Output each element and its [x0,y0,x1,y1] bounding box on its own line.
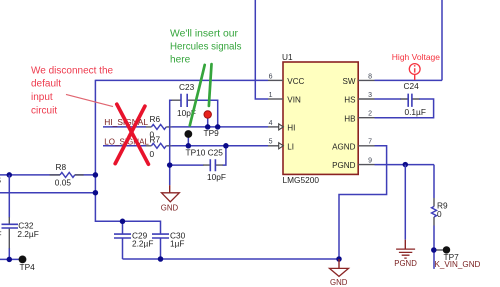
svg-text:0: 0 [150,149,155,159]
pin 2 HB [344,111,374,124]
capacitor C23 [177,82,196,118]
svg-text:U1: U1 [282,52,293,62]
svg-text:2: 2 [368,111,372,118]
svg-text:PGND: PGND [394,259,417,268]
svg-text:K_VIN_GND: K_VIN_GND [435,260,481,269]
ground GND (bottom) [330,259,349,287]
resistor R6 [146,114,172,139]
node junction C29 top [120,219,126,225]
svg-text:HB: HB [344,114,355,123]
wire R8 row [0,174,95,176]
pin 8 SW [342,73,374,86]
node junction C25 / GND branch [167,162,173,168]
svg-text:2.2µF: 2.2µF [17,229,38,239]
node junction row2/bus [93,190,99,196]
svg-text:6: 6 [269,73,273,80]
wire VIN top rail [255,0,268,99]
svg-text:SW: SW [342,77,355,86]
test point TP10 [184,130,192,146]
svg-text:10pF: 10pF [207,172,226,182]
svg-text:7: 7 [368,139,372,146]
pin 1 VIN [268,92,301,105]
node junction C30 bottom [158,256,164,262]
resistor R7 [146,135,172,160]
svg-text:3: 3 [368,92,372,99]
svg-text:1µF: 1µF [170,238,184,248]
node junction TP9 / HI [205,124,211,129]
svg-text:input: input [31,92,53,103]
test point TP4 [19,256,36,273]
svg-text:C23: C23 [179,82,195,92]
annotation green stroke 1 [190,65,205,126]
capacitor C32 [2,221,39,239]
svg-text:0.1µF: 0.1µF [405,107,426,117]
annotation red text [31,65,114,116]
node junction TP10 / LO [186,143,192,149]
svg-text:Hercules signals: Hercules signals [170,41,242,52]
node junction R8/bus [93,172,99,178]
svg-text:4: 4 [269,120,273,127]
annotation green stroke 2 [209,64,212,106]
svg-text:We disconnect the: We disconnect the [31,65,114,76]
svg-text:GND: GND [161,203,179,212]
capacitor C30 [152,231,186,259]
wire second left row [0,192,95,194]
svg-text:TP4: TP4 [20,262,36,272]
ground GND (input loop) [161,185,180,212]
svg-text:R6: R6 [150,114,161,124]
wire PGND run [375,165,435,198]
pin 7 AGND [332,139,374,152]
resistor R9 [432,198,448,226]
IC U1 LMG5200 [282,52,358,185]
svg-text:TP10 C25: TP10 C25 [186,147,224,157]
svg-text:GND: GND [330,278,348,287]
wire LO row [103,145,268,147]
svg-text:5: 5 [269,139,273,146]
pin 3 HS [344,92,374,105]
annotation green text [170,28,242,65]
svg-text:0.05: 0.05 [55,177,72,187]
wire R9 bottom / K_VIN_GND stub [433,226,435,269]
resistor R8 [50,162,84,187]
wire HS run [375,99,434,118]
svg-text:9: 9 [368,158,372,165]
svg-text:R8: R8 [56,162,67,172]
pin 9 PGND [332,158,374,171]
wire AGND run [339,146,387,259]
pin 6 VCC [268,73,305,86]
svg-text:0: 0 [437,209,442,219]
capacitor C25 [207,159,226,182]
svg-text:TP9: TP9 [204,128,220,138]
annotation red X stroke 1 [117,104,149,164]
wire bottom ground rail [123,258,340,260]
svg-text:circuit: circuit [31,105,57,116]
wire PGND vertical [404,165,406,240]
svg-text:LI: LI [287,142,294,151]
svg-text:VIN: VIN [287,96,301,105]
capacitor C29 [114,221,153,259]
power marker High Voltage [392,52,440,80]
svg-text:C24: C24 [404,81,420,91]
wire TP4 row [0,258,23,260]
svg-text:1: 1 [269,92,273,99]
svg-text:High Voltage: High Voltage [392,52,440,62]
wire TP7 link [434,249,443,251]
pin 5 LI [268,139,294,152]
node junction R9 bottom [431,247,437,253]
svg-text:R7: R7 [150,135,161,145]
node junction C23 right / HI [215,124,221,129]
test point TP7 [443,246,459,262]
node junction PGND drop [403,162,409,168]
svg-text:LMG5200: LMG5200 [283,175,320,185]
svg-text:F: F [0,229,2,239]
svg-text:VCC: VCC [287,77,304,86]
svg-text:HI: HI [287,124,295,133]
power port PGND [394,240,417,268]
wire C25 loop [170,146,226,165]
pin 4 HI [268,120,295,133]
svg-text:We'll insert our: We'll insert our [170,28,239,39]
node junction R8 left [7,172,13,178]
wire VCC rail [95,79,268,81]
wire left bus vertical [95,80,160,234]
wire SW run [375,0,443,80]
svg-text:2.2µF: 2.2µF [132,238,153,248]
node junction ground rail [336,256,342,262]
svg-text:HS: HS [344,96,356,105]
svg-text:AGND: AGND [332,142,356,151]
test point TP9 [204,111,220,138]
wire HI row [103,126,268,128]
annotation red leader line [66,94,113,106]
svg-text:8: 8 [368,73,372,80]
wire C23 loop [170,100,218,185]
annotation red X stroke 2 [115,106,145,163]
svg-text:default: default [31,79,61,90]
node junction TP4 row [7,257,13,263]
node junction C25 right / LO [223,143,229,149]
svg-text:PGND: PGND [332,161,356,170]
svg-text:here: here [170,54,191,65]
wire C32 branch [8,175,10,260]
capacitor C24 [401,81,426,117]
